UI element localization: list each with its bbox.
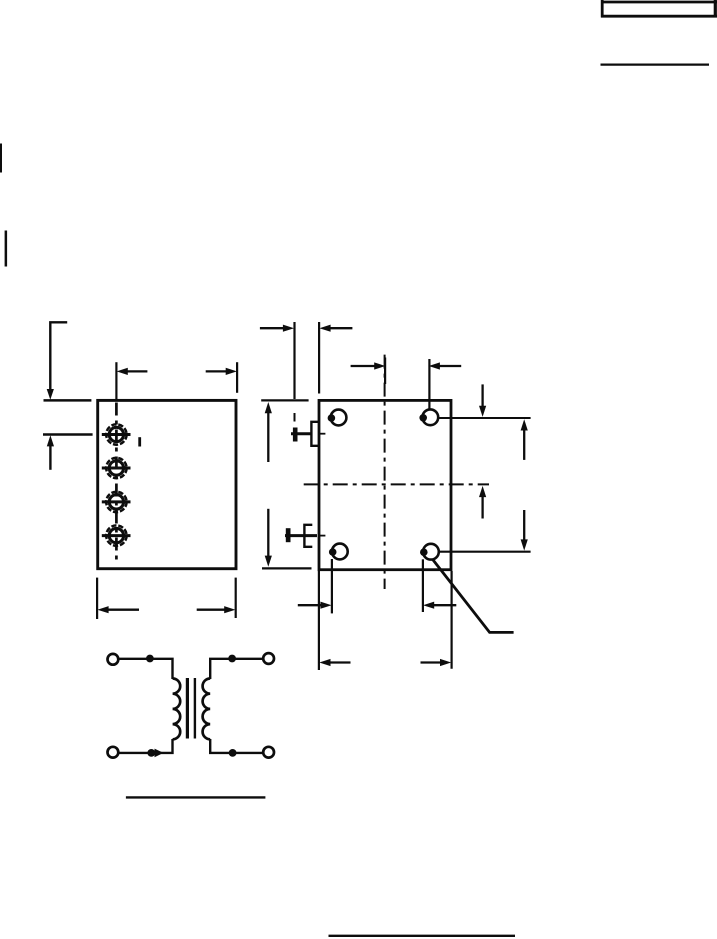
- vertical centerline of bottom view: [384, 355, 386, 589]
- extension line terminal centerline above case: [115, 362, 117, 399]
- extension line case left edge below bottom view: [318, 571, 320, 670]
- schematic terminal circle top-right: [263, 653, 274, 664]
- extension line top hole row (to right): [438, 417, 530, 419]
- header box (cropped top-right): [601, 0, 717, 18]
- terminal E3: [102, 492, 131, 512]
- horizontal centerline of bottom view: [304, 483, 489, 485]
- schematic terminal circle bottom-right: [263, 747, 274, 758]
- extension line case right edge above case: [236, 362, 238, 393]
- wire top-left: [119, 659, 173, 679]
- wire bottom-left: [119, 739, 173, 753]
- schematic terminal circle top-left: [108, 654, 119, 665]
- extension line case right edge below bottom view: [451, 571, 453, 669]
- polarity dot top-left: [146, 655, 154, 663]
- dim H (bottom view height, far left): [265, 402, 272, 567]
- primary winding (left coil, loops toward core): [173, 679, 181, 740]
- change bar 1: [0, 144, 2, 173]
- mounting hole top-right: [419, 409, 438, 425]
- secondary winding (right coil, loops toward core): [203, 679, 211, 740]
- extension line case left edge above bottom view: [318, 322, 320, 394]
- dim J (bottom view width): [319, 659, 451, 666]
- extension line case right edge below: [235, 578, 237, 618]
- dim F lower arrow (up at horizontal centerline): [479, 486, 486, 519]
- dim I (hole spacing, below bottom view): [298, 602, 457, 609]
- dim F upper arrow (down at top hole row): [479, 384, 486, 417]
- polarity dot top-right: [228, 655, 236, 663]
- extension line case bottom (left of bottom view): [262, 567, 312, 569]
- extension line stud head (above bottom view): [293, 322, 295, 422]
- dim D (stud protrusion): [260, 325, 353, 332]
- terminal E2: [102, 458, 131, 478]
- terminal 1 number tick: [138, 437, 141, 446]
- terminal E4: [102, 525, 131, 545]
- dim A lower arrow pointing up at terminal 1 line: [47, 435, 54, 470]
- dim C horizontal (front view width): [97, 606, 235, 613]
- terminal stud 1 (bottom view, upper): [291, 422, 325, 446]
- terminal E1: [102, 424, 131, 444]
- extension line case left edge below: [96, 578, 98, 619]
- front view case outline: [98, 400, 236, 568]
- header rule: [601, 63, 710, 65]
- extension line bottom hole row (to right): [439, 551, 531, 553]
- mounting hole top-left: [328, 410, 347, 426]
- mounting hole bottom-left: [329, 544, 348, 560]
- terminal stud 2 (bottom view, lower): [285, 525, 325, 547]
- extension line case top (left of bottom view): [261, 399, 308, 401]
- polarity dot bottom-right: [229, 749, 237, 757]
- extension line hole column above bottom view: [428, 359, 430, 409]
- extension line case top left of front view: [44, 399, 92, 402]
- mounting hole bottom-right: [420, 544, 439, 560]
- polarity dot bottom-left (doubled blob): [147, 749, 163, 758]
- footer rule: [329, 935, 516, 937]
- front view terminal centerline: [115, 403, 118, 562]
- dim B horizontal (terminal centerline to right edge): [117, 368, 237, 375]
- schematic terminal circle bottom-left: [108, 747, 119, 758]
- schematic caption underline: [126, 796, 266, 798]
- extension line left hole below bottom view: [331, 559, 333, 613]
- dim E (centerline to hole column): [351, 362, 462, 369]
- extension line right hole below bottom view: [422, 559, 424, 612]
- change bar 2: [5, 231, 8, 267]
- wire top-right: [210, 659, 263, 679]
- bottom view case outline: [319, 400, 451, 569]
- transformer core (two lamination lines): [187, 678, 195, 739]
- dim A vertical (case top to terminal 1) upper arrow with bracket: [47, 322, 67, 400]
- dim G (hole row to hole row, right side): [521, 419, 528, 550]
- extension line vertical centerline above bottom view: [384, 358, 386, 385]
- extension line terminal 1 level: [43, 433, 93, 436]
- wire bottom-right: [210, 739, 263, 753]
- leader line to bottom-right hole: [433, 560, 514, 633]
